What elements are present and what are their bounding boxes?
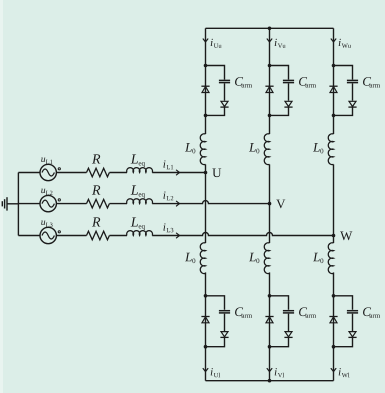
top bus to leg V	[269, 28, 271, 65]
ac source u_L2	[40, 195, 60, 211]
lower submodule leg V	[265, 294, 294, 349]
wire L_eq to node V with crossover hops	[152, 201, 269, 204]
wire lower submodule to bottom bus leg W	[333, 347, 335, 381]
wire submodule to upper inductor leg V	[269, 115, 271, 134]
label R phase 2	[92, 185, 100, 194]
label L_0 upper leg U	[185, 143, 195, 153]
wire source to R phase 2	[56, 203, 86, 205]
wire node W to lower inductor	[333, 236, 335, 244]
lower arm inductor L_0 leg W	[328, 243, 333, 274]
wire submodule to upper inductor leg W	[333, 115, 335, 134]
upper submodule leg V	[265, 64, 294, 117]
top bus right corner to leg W	[333, 28, 335, 65]
label L_eq phase 1	[131, 154, 145, 167]
label C_arm lower leg U	[235, 307, 252, 317]
label i_L3	[163, 223, 173, 232]
arrowhead lower arm current i_Wl	[331, 369, 336, 372]
upper submodule leg U	[201, 64, 230, 117]
junction top bus middle	[268, 27, 272, 31]
arrowhead upper arm current i_Uu	[203, 39, 208, 42]
label C_arm lower leg W	[363, 307, 380, 317]
arrowhead i_L1	[176, 170, 179, 175]
ac source u_L1	[40, 164, 60, 180]
resistor R phase 1	[87, 168, 110, 177]
label u_L2	[41, 189, 52, 195]
wire source bus vertical	[17, 173, 19, 236]
wire source to R phase 3	[56, 235, 86, 237]
arrowhead upper arm current i_Vu	[267, 39, 272, 42]
lower arm inductor L_0 leg U	[200, 243, 205, 274]
wire lower inductor to lower submodule leg W	[333, 272, 335, 295]
wire source to R phase 1	[56, 172, 86, 174]
node U	[204, 168, 222, 177]
resistor R phase 2	[87, 199, 110, 208]
inductor L_eq phase 2	[127, 199, 153, 204]
junction bottom bus middle	[268, 379, 272, 383]
wire lower submodule to bottom bus leg V	[269, 347, 271, 381]
top bus left corner to leg U	[205, 28, 207, 65]
wire bus to source u_L1	[18, 172, 40, 174]
label L_0 upper leg W	[313, 143, 323, 153]
label u_L1	[41, 157, 52, 163]
wire node U to lower inductor	[205, 173, 207, 244]
label R phase 3	[92, 217, 100, 226]
label L_eq phase 3	[131, 217, 145, 230]
resistor R phase 3	[87, 231, 110, 240]
label L_0 lower leg U	[185, 253, 195, 263]
node V	[268, 200, 286, 209]
label i_L1	[163, 160, 173, 169]
wire upper inductor to node U	[205, 164, 207, 172]
label i_L2	[163, 191, 173, 200]
arrowhead upper arm current i_Wu	[331, 39, 336, 42]
arrowhead lower arm current i_Vl	[267, 369, 272, 372]
wire R to L_eq phase 2	[109, 203, 127, 205]
label C_arm lower leg V	[299, 307, 316, 317]
label C_arm upper leg W	[363, 77, 380, 87]
wire submodule to upper inductor leg U	[205, 115, 207, 134]
wire L_eq to node W with crossover hops	[152, 233, 333, 236]
label C_arm upper leg V	[299, 77, 316, 87]
bottom DC bus	[206, 380, 334, 382]
wire lower inductor to lower submodule leg V	[269, 272, 271, 295]
ground	[2, 197, 7, 210]
label i_Vu	[275, 39, 286, 48]
wire upper inductor to node W	[333, 164, 335, 235]
wire lower inductor to lower submodule leg U	[205, 272, 207, 295]
lower submodule leg W	[329, 294, 358, 349]
arrowhead lower arm current i_Ul	[203, 369, 208, 372]
top DC bus	[206, 27, 334, 29]
label L_eq phase 2	[131, 185, 145, 198]
label L_0 lower leg V	[249, 253, 259, 263]
label L_0 lower leg W	[313, 253, 323, 263]
label u_L3	[41, 220, 52, 226]
label i_Wu	[339, 39, 351, 48]
wire lower submodule to bottom bus leg U	[205, 347, 207, 381]
inductor L_eq phase 1	[127, 168, 153, 173]
upper arm inductor L_0 leg U	[200, 134, 205, 165]
wire bus to source u_L3	[18, 235, 40, 237]
label i_Uu	[211, 39, 222, 48]
label L_0 upper leg V	[249, 143, 259, 153]
node W	[332, 231, 353, 240]
label C_arm upper leg U	[235, 77, 252, 87]
label R phase 1	[92, 154, 100, 163]
wire ground to bus	[7, 203, 18, 205]
upper arm inductor L_0 leg V	[264, 134, 269, 165]
upper submodule leg W	[329, 64, 358, 117]
upper arm inductor L_0 leg W	[328, 134, 333, 165]
label i_Wl	[339, 368, 350, 377]
wire node V to lower inductor	[269, 204, 271, 243]
wire upper inductor to node V	[269, 164, 271, 203]
inductor L_eq phase 3	[127, 231, 153, 236]
arrowhead i_L3	[176, 233, 179, 238]
wire bus to source u_L2	[18, 203, 40, 205]
wire R to L_eq phase 3	[109, 235, 127, 237]
arrowhead i_L2	[176, 201, 179, 206]
wire L_eq to node U with crossover hops	[152, 172, 205, 174]
label i_Vl	[275, 368, 284, 377]
lower arm inductor L_0 leg V	[264, 243, 269, 274]
wire R to L_eq phase 1	[109, 172, 127, 174]
lower submodule leg U	[201, 294, 230, 349]
label i_Ul	[211, 368, 220, 377]
ac source u_L3	[40, 227, 60, 243]
